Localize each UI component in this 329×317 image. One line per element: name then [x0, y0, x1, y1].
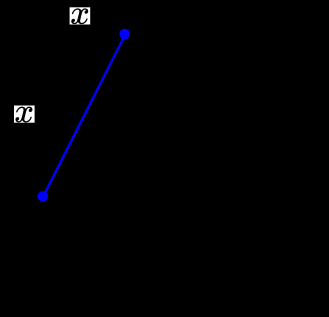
node B (top point) — [119, 29, 130, 40]
wire segment AB — [43, 34, 125, 196]
label x (top point) — [70, 7, 91, 24]
label x (left point) — [14, 106, 35, 123]
node A (bottom point) — [38, 191, 49, 202]
